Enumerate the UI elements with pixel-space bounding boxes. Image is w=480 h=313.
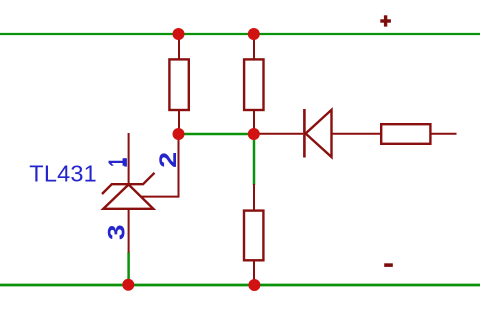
TL431 U1 bbox=[102, 133, 179, 253]
triangle body bbox=[103, 185, 153, 209]
wire: mid node horizontal (node A) bbox=[179, 133, 255, 136]
svg-text:2: 2 bbox=[155, 152, 182, 168]
pin 1 lead (cathode) bbox=[128, 133, 130, 184]
pin 2 lead (reference) bbox=[142, 134, 179, 197]
wire: + bus (top horizontal) bbox=[0, 33, 480, 35]
diode D1 bbox=[256, 109, 380, 158]
resistor R2 bbox=[244, 35, 263, 134]
junction dot top-left bbox=[173, 28, 185, 40]
pin 3 lead (anode) bbox=[128, 209, 130, 253]
svg-text:TL431: TL431 bbox=[29, 161, 97, 187]
junction dot node A right bbox=[248, 128, 260, 140]
resistor R4 bbox=[381, 124, 456, 144]
junction dot bottom-left bbox=[122, 279, 134, 291]
junction dot bottom-right bbox=[248, 279, 260, 291]
junction dot top-right bbox=[248, 28, 260, 40]
label + (positive terminal) bbox=[380, 15, 391, 26]
label - (negative terminal) bbox=[384, 263, 393, 267]
svg-text:1: 1 bbox=[104, 158, 131, 167]
wire: vertical from TL431 anode to - bus bbox=[127, 252, 130, 285]
resistor R3 bbox=[244, 184, 263, 285]
wire: vertical from node A down to R3 bbox=[253, 134, 256, 185]
cathode bar with zener ticks bbox=[102, 173, 155, 194]
junction dot node A left bbox=[173, 128, 185, 140]
resistor R1 bbox=[169, 35, 188, 134]
wire: - bus (bottom horizontal) bbox=[0, 284, 480, 287]
svg-text:3: 3 bbox=[103, 224, 130, 240]
